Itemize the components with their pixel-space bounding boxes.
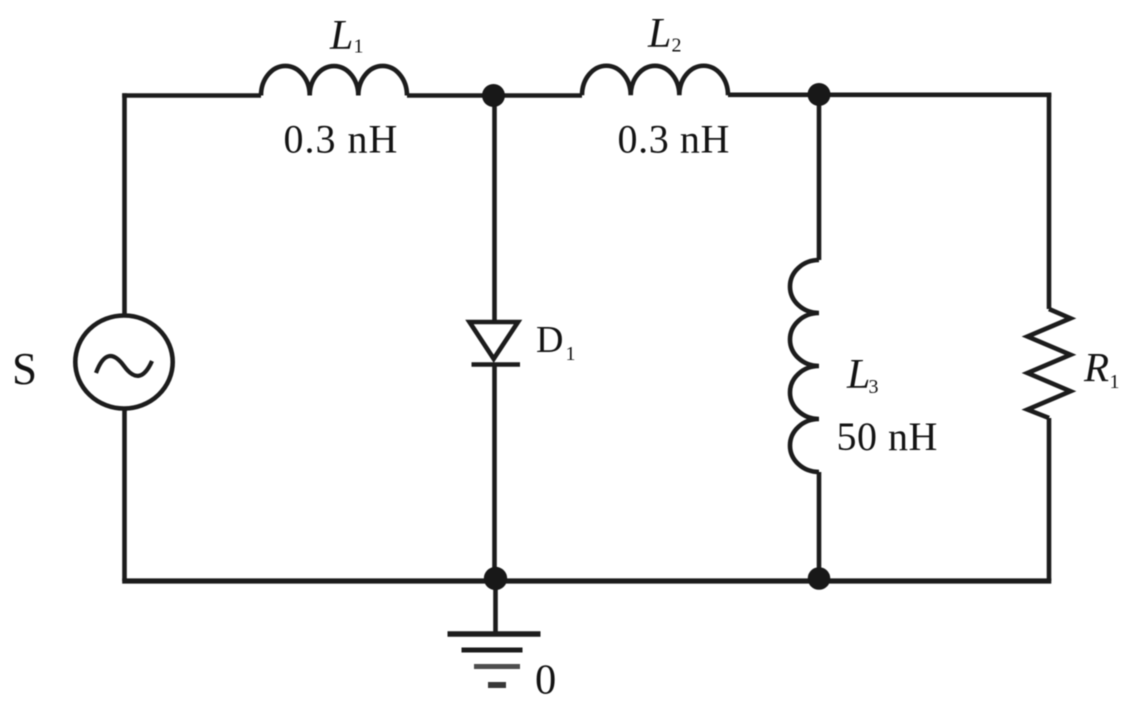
- inductor L2: [582, 66, 728, 96]
- wire right vertical lower (R1 to bottom corner): [1047, 418, 1052, 581]
- wire diode branch lower (diode to node C): [492, 365, 497, 582]
- inductor L1: [261, 66, 407, 96]
- diode D1 cathode bar: [472, 362, 521, 367]
- diode D1 triangle: [470, 322, 519, 359]
- svg-text:0.3 nH: 0.3 nH: [284, 117, 399, 162]
- inductor L3: [790, 260, 819, 472]
- wire L3 branch upper (node B to coil): [817, 94, 822, 260]
- svg-text:0: 0: [535, 657, 556, 704]
- svg-text:R: R: [1083, 344, 1109, 390]
- wire left vertical upper (corner to source top): [122, 93, 127, 315]
- AC source sine wave: [96, 356, 152, 376]
- ground stem: [493, 578, 498, 633]
- ground bar 3: [474, 664, 520, 669]
- wire L3 branch lower (coil to node D): [817, 472, 822, 581]
- svg-text:L: L: [329, 13, 353, 59]
- svg-text:1: 1: [1110, 371, 1120, 393]
- wire top-right horizontal segment (L2 to right corner): [728, 93, 1051, 98]
- wire top-left horizontal segment (source to L1): [122, 93, 261, 98]
- resistor R1: [1028, 309, 1071, 418]
- svg-text:3: 3: [869, 376, 879, 398]
- svg-text:D: D: [536, 319, 563, 361]
- wire top-middle horizontal segment (L1 to L2): [407, 93, 582, 98]
- svg-text:S: S: [12, 344, 37, 394]
- svg-text:1: 1: [354, 36, 364, 58]
- node D junction dot (bottom, L3): [808, 567, 831, 590]
- svg-text:0.3 nH: 0.3 nH: [618, 117, 731, 162]
- svg-text:L: L: [846, 352, 870, 398]
- wire diode branch upper (node A to diode): [492, 96, 497, 323]
- svg-text:L: L: [647, 11, 671, 57]
- node B junction dot (L2-L3-top right): [808, 83, 831, 106]
- svg-text:2: 2: [672, 35, 682, 57]
- node C junction dot (bottom, ground): [484, 567, 507, 590]
- ground bar 2: [462, 648, 523, 653]
- node A junction dot (L1-L2-diode): [482, 84, 505, 107]
- svg-text:50 nH: 50 nH: [837, 414, 938, 459]
- svg-text:1: 1: [566, 343, 576, 365]
- wire left vertical lower (source bottom to bottom corner): [122, 409, 127, 581]
- wire right vertical upper (corner to R1): [1047, 93, 1052, 309]
- ground bar 4: [488, 682, 506, 688]
- ground bar 1: [448, 631, 541, 637]
- wire bottom horizontal: [122, 578, 1051, 583]
- AC source S circle: [75, 316, 172, 409]
